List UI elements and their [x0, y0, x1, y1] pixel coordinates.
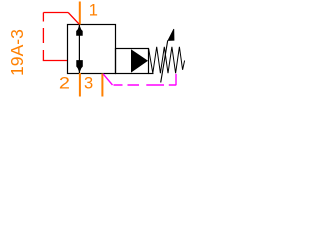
port 2 wire: [79, 73, 81, 97]
adjustment arrow shaft: [161, 41, 168, 83]
red leader bottom horizontal: [43, 60, 67, 62]
svg-text:1: 1: [89, 2, 98, 20]
adjustment arrowhead: [168, 29, 174, 40]
port 3 wire: [101, 74, 103, 97]
svg-text:3: 3: [84, 74, 93, 92]
magenta link horizontal dashed: [114, 84, 177, 86]
red leader top horizontal: [43, 12, 68, 14]
svg-text:19A-3: 19A-3: [7, 29, 27, 76]
magenta link diagonal: [103, 74, 113, 85]
red leader diagonal to port 1 node: [68, 13, 79, 25]
solenoid triangle: [131, 49, 148, 72]
solenoid box U1: [116, 49, 149, 74]
baseline stub under spring: [149, 73, 154, 75]
port 1 wire: [79, 2, 81, 25]
flow path line: [78, 25, 80, 73]
spring: [149, 47, 185, 73]
flow arrowhead up: [76, 25, 83, 36]
svg-text:2: 2: [59, 74, 70, 92]
magenta link vertical: [175, 74, 177, 85]
valve body square: [68, 25, 116, 74]
red leader vertical dashes: [42, 13, 44, 61]
flow arrowhead down: [76, 60, 83, 73]
